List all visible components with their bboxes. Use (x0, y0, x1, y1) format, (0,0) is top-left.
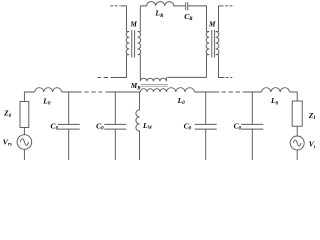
wire: rail dashed (right) (222, 91, 241, 93)
wire: rail to first shunt (62, 91, 82, 93)
transformer M (left), loop-side coil (138, 32, 141, 55)
inductor L0 (right) (262, 88, 290, 92)
svg-text:M: M (208, 21, 216, 29)
inductor L0 (middle) (167, 88, 195, 92)
sine inside Vrs (20, 139, 28, 146)
top loop top side with inductor LR (140, 2, 185, 6)
wire: rail to right corner (290, 92, 297, 101)
source branch left: stem to rail (24, 92, 34, 102)
core of transformer MB (141, 85, 168, 87)
capacitor C0 #3 (195, 92, 217, 160)
wire: right neighbor vertical top (218, 6, 220, 32)
transformer M (right), loop-side coil (206, 32, 209, 55)
wire: mid-left dashed (98, 77, 116, 79)
core of transformer M (left) (132, 30, 135, 58)
source Vr circle (290, 136, 304, 150)
svg-text:C0: C0 (234, 121, 242, 131)
wire: Vr to bottom edge (296, 150, 298, 160)
capacitor C0 #4 (241, 92, 263, 160)
wire: Vrs to bottom edge (23, 149, 25, 160)
source Vrs circle (17, 135, 32, 150)
transformer MB bottom winding (series in rail) (140, 89, 166, 92)
wire: CR to top-right corner (188, 6, 207, 32)
inductor LW shunt (136, 92, 140, 160)
wire: ZL to source Vr (296, 126, 298, 136)
wire: right neighbor vertical bottom (219, 55, 225, 78)
svg-text:Z0: Z0 (3, 109, 12, 119)
svg-text:CR: CR (184, 12, 193, 22)
wire: rail solid resumes (243, 91, 262, 93)
wire: Z0 to source Vrs (23, 128, 25, 135)
core of transformer M (right) (212, 30, 215, 58)
svg-text:Vrs: Vrs (3, 137, 12, 147)
node: top loop left side (139, 6, 141, 32)
capacitor CR (186, 2, 188, 10)
wire: top-right neighbor solid (219, 5, 224, 7)
svg-text:LR: LR (154, 9, 164, 19)
resistor ZL box (292, 101, 302, 126)
capacitor C0 #2 (104, 92, 126, 160)
svg-text:L0: L0 (42, 96, 51, 106)
wire: loop right side down and across to winding (167, 55, 206, 78)
wire: mid-right dashed (226, 77, 232, 79)
svg-text:L0: L0 (270, 96, 279, 106)
svg-text:MB: MB (130, 82, 141, 91)
svg-text:M: M (130, 21, 138, 29)
transformer M (left), neighbor-side coil (126, 32, 129, 55)
svg-text:C0: C0 (184, 121, 192, 131)
capacitor C0 #1 (58, 92, 80, 160)
transformer M (right), neighbor-side coil (216, 32, 219, 55)
wire: top-left neighbor dashed (110, 5, 119, 7)
wire: loop left side down to top winding (139, 55, 141, 79)
wire: rail dashed (left) (84, 91, 102, 93)
wire: top-left neighbor solid to corner (120, 6, 126, 32)
sine inside Vr (293, 140, 301, 146)
wire: top-right neighbor dashed (225, 5, 234, 7)
svg-text:ZL: ZL (308, 111, 315, 121)
wire: neighbor-side coil down to mid dashed level (115, 55, 127, 78)
inductor L0 (left) (35, 88, 62, 92)
resistor Z0 box (20, 102, 29, 128)
transformer MB top winding (140, 77, 166, 81)
svg-text:C0: C0 (96, 121, 104, 131)
wire: rail solid to winding (105, 91, 140, 93)
svg-text:LW: LW (142, 121, 153, 131)
svg-text:L0: L0 (177, 96, 186, 106)
svg-text:C0: C0 (51, 121, 59, 131)
svg-text:Vr: Vr (309, 140, 315, 150)
wire: rail to cap3 and on (194, 91, 219, 93)
